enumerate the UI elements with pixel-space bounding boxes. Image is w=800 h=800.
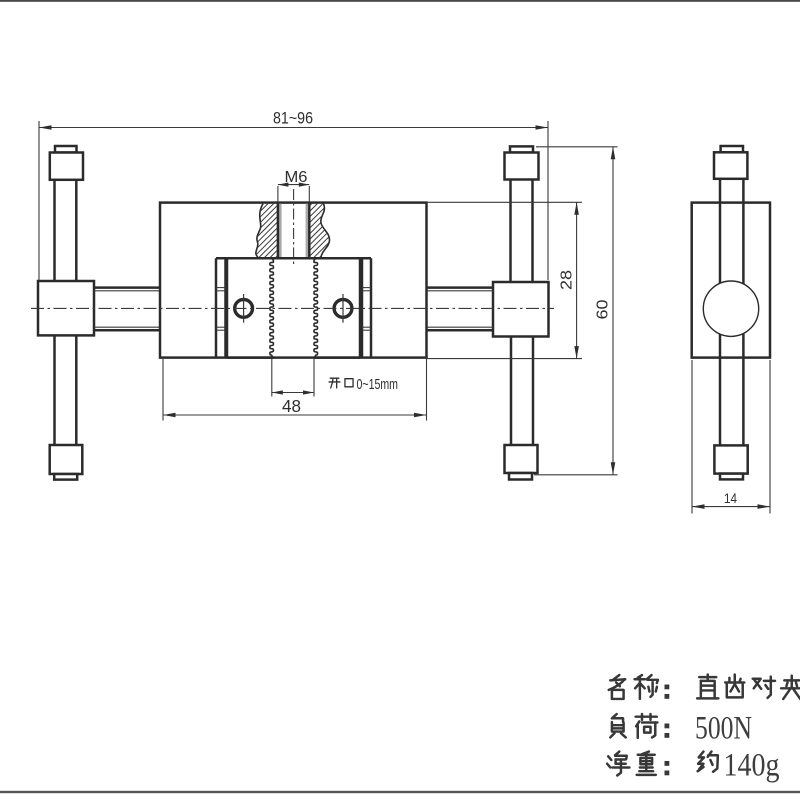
right screw upper rod [511,180,533,283]
main body block [160,203,427,358]
right guide rail / lead screw [427,288,494,331]
svg-text:81~96: 81~96 [273,109,313,128]
spec text line 3: 净重：约140g [607,752,629,776]
left hatched boss outline [256,204,263,258]
left screw knob [50,153,83,180]
jaw assembly top edge [216,257,371,260]
left screw lower rod [55,335,77,444]
horizontal centre line (axis) [31,307,554,309]
left screw upper rod [55,180,77,281]
right screw knob [505,153,539,180]
left guide rail / lead screw [94,288,160,331]
dimension 60 overall height [534,147,618,475]
dimension M6 [278,185,309,202]
bottom page border line [0,791,800,793]
right jaw screw head [334,300,352,318]
top page border line [0,0,800,2]
left jaw block with serrated face [227,258,274,357]
left end plate of jaw carrier [216,258,226,357]
side view top cap [721,146,743,152]
side view knob [714,152,747,179]
dimension jaw opening 0~15mm [272,359,314,397]
dimension 48 body width [163,358,427,421]
right screw bottom cap [509,473,532,480]
right screw lower rod [511,337,533,446]
svg-text:28: 28 [559,270,576,290]
side view body [692,203,770,358]
right hatched boss outline [321,204,330,258]
right jaw block with serrated face [314,258,360,357]
left screw top cap [55,146,77,153]
side view bottom knob [714,445,747,473]
right slider block [493,282,549,337]
side view bottom cap [720,474,743,480]
spec text line 1: 名称：直齿对夹 [609,675,625,699]
left screw bottom knob [50,445,83,474]
dimension 14 side width [692,360,770,514]
left jaw screw head [235,300,253,318]
right end plate of jaw carrier [362,258,371,357]
right screw bottom knob [505,445,538,473]
left slider block [38,281,94,335]
label 开口0~15mm [329,378,340,388]
right screw top cap [510,146,533,152]
vertical centre line of M6 hole [293,189,295,264]
threaded hole inner (minor dia, grey) [279,204,282,258]
side view screw rod [720,179,743,446]
dimension 28 body height [427,202,583,358]
svg-text:14: 14 [724,490,737,506]
threaded hole M6 outer lines [278,203,309,259]
svg-text:140g: 140g [724,748,780,784]
left screw bottom cap [54,474,77,480]
svg-text:48: 48 [282,396,301,416]
dimension 81~96 overall width [39,121,548,280]
side view boss circle [703,281,758,336]
svg-text:60: 60 [595,299,612,319]
svg-text:0~15mm: 0~15mm [357,376,399,393]
spec text line 2: 负荷：500N [610,714,625,737]
svg-text:500N: 500N [695,711,752,747]
svg-text:M6: M6 [285,169,308,186]
